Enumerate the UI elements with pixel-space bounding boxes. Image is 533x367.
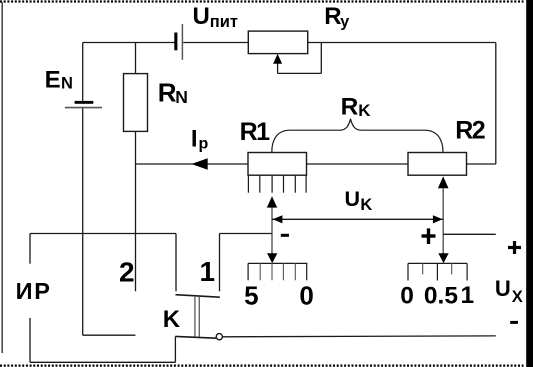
label RN: [158, 77, 188, 107]
label Ux: [495, 276, 523, 306]
svg-text:ИР: ИР: [16, 278, 52, 304]
svg-text:K: K: [358, 101, 371, 120]
svg-text:у: у: [340, 13, 349, 30]
switch K lever double line: [195, 297, 199, 337]
svg-text:2: 2: [119, 257, 135, 288]
svg-text:K: K: [360, 196, 372, 214]
svg-text:1: 1: [200, 256, 216, 287]
svg-text:R: R: [158, 77, 177, 107]
wire IR bottom stub: [29, 318, 31, 362]
svg-text:K: K: [163, 306, 181, 333]
dimension line UK: [272, 215, 443, 223]
svg-text:R: R: [324, 3, 341, 30]
wire top node down to RN: [135, 43, 137, 74]
rheostat Ry box: [248, 31, 307, 53]
wire R1 to R2: [307, 163, 409, 165]
wire Ry to right trunk: [308, 42, 496, 44]
resistor RN box: [124, 74, 148, 132]
svg-text:пит: пит: [210, 13, 238, 31]
minus sign at R1 wiper: [281, 234, 289, 237]
wire top left (node to Upit battery): [83, 42, 175, 44]
battery EN: [65, 101, 102, 108]
wire IR top (to switch contact): [30, 233, 176, 235]
R1 wiper double arrow line: [267, 196, 278, 263]
scale comb right: [408, 263, 467, 280]
switch K left contact lead: [175, 234, 177, 292]
wire IR bottom: [30, 361, 175, 363]
scale comb left: [248, 263, 307, 280]
label Ry: [324, 3, 349, 30]
svg-text:R: R: [341, 94, 359, 121]
svg-text:0.5: 0.5: [424, 283, 458, 310]
potentiometer R2 box: [408, 153, 467, 176]
svg-text:N: N: [175, 87, 188, 107]
Ry wiper arrow and short-circuit loop: [273, 43, 321, 74]
battery Upit: [174, 24, 182, 60]
wire EN trunk corner to open contact 2: [83, 334, 136, 336]
label UK: [345, 187, 373, 214]
wire IR top stub: [29, 234, 31, 264]
current arrow Ip: [192, 158, 208, 170]
label EN: [45, 66, 73, 93]
plus sign Ux: [508, 241, 521, 254]
label RK: [341, 94, 372, 121]
svg-text:E: E: [45, 66, 61, 93]
brace RK: [272, 119, 443, 153]
svg-text:0: 0: [299, 281, 313, 311]
wire switch pivot to Ux minus terminal: [222, 335, 495, 338]
plus sign at R2 wiper: [422, 228, 436, 244]
wire Ip (RN junction to R1): [136, 163, 249, 165]
wire battery to Ry: [183, 42, 248, 44]
svg-text:0: 0: [400, 283, 414, 310]
wire R2 to trunk: [467, 163, 496, 165]
svg-text:X: X: [512, 288, 523, 306]
R1 taps comb: [248, 175, 306, 193]
wire bottom stub up to switch blade: [174, 336, 176, 362]
svg-text:R1: R1: [240, 118, 271, 146]
wire R2 wiper to Ux plus terminal: [443, 233, 496, 235]
label Ip: [191, 126, 209, 153]
switch K pivot circle: [216, 334, 222, 340]
svg-text:R2: R2: [455, 116, 485, 144]
svg-text:5: 5: [244, 281, 258, 311]
svg-text:U: U: [193, 3, 210, 30]
svg-text:1: 1: [461, 282, 475, 309]
minus sign Ux: [510, 321, 518, 324]
R2 wiper double arrow line: [438, 176, 449, 263]
switch K right contact lead: [219, 234, 221, 292]
wire switch right contact to R1 wiper: [220, 233, 273, 235]
svg-text:р: р: [199, 136, 209, 153]
wire top node down to EN battery: [82, 43, 84, 102]
label Upit: [193, 3, 239, 31]
svg-text:I: I: [191, 126, 198, 153]
wire right trunk down to R2: [495, 43, 497, 165]
switch K top contact bar: [176, 295, 220, 298]
svg-text:U: U: [495, 276, 511, 301]
switch K bottom bar: [175, 336, 216, 338]
wire RN down to terminal 2: [135, 131, 137, 291]
svg-text:N: N: [61, 75, 73, 93]
potentiometer R1 box: [248, 153, 307, 176]
svg-text:U: U: [345, 187, 361, 211]
wire EN battery down left trunk: [82, 108, 84, 335]
